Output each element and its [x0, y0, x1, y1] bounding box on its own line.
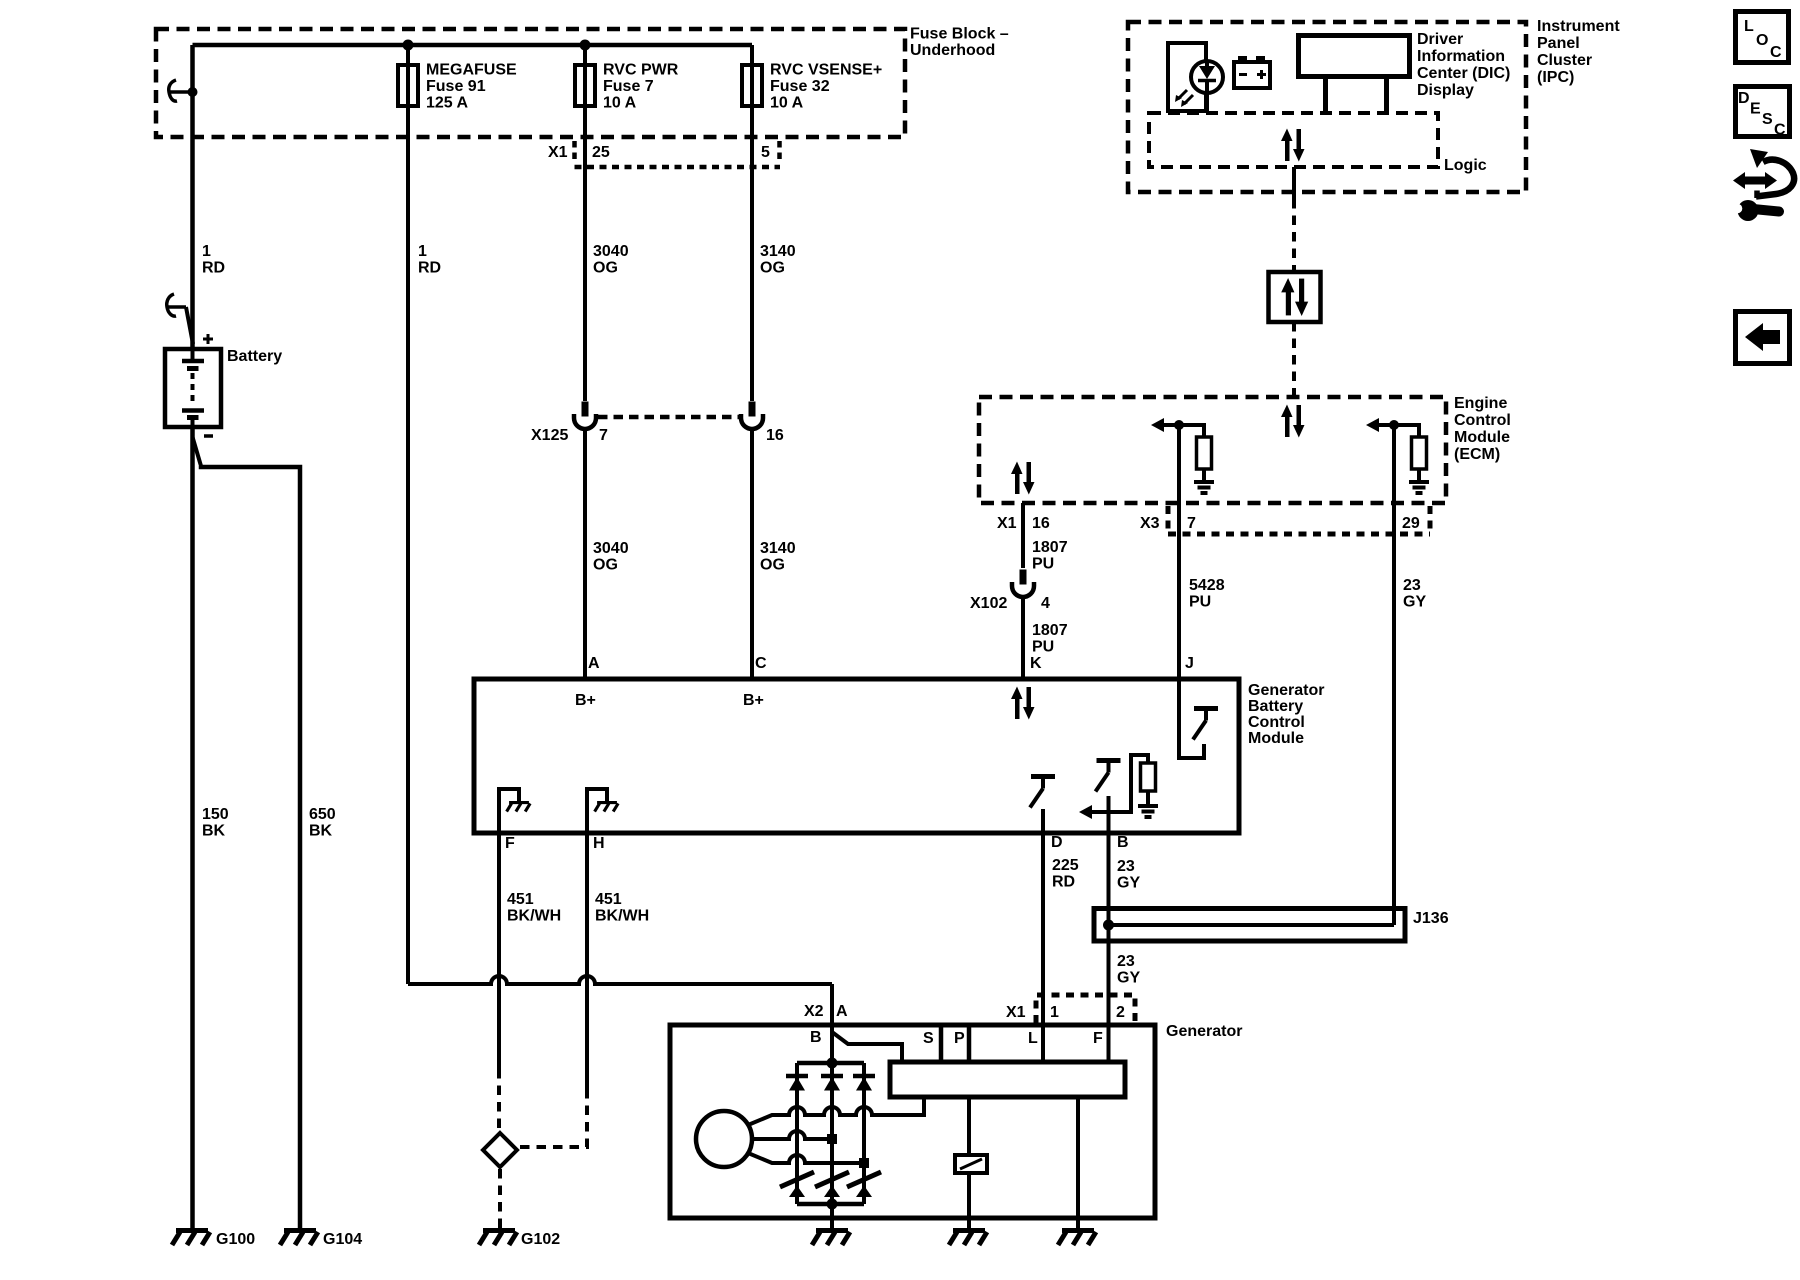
- IPC box: [1128, 22, 1526, 192]
- wire 3140 OG upper: [752, 45, 796, 401]
- bus wire B+ in fuse block: [193, 43, 753, 48]
- svg-text:RVC PWR: RVC PWR: [603, 62, 679, 79]
- battery plus sign: [203, 334, 213, 344]
- svg-text:23: 23: [1403, 577, 1421, 594]
- svg-text:451: 451: [507, 891, 534, 908]
- svg-text:3140: 3140: [760, 540, 796, 557]
- fuse RVC VSENSE+ Fuse 32: [742, 62, 882, 112]
- svg-text:25: 25: [592, 144, 610, 161]
- svg-text:4: 4: [1041, 595, 1050, 612]
- svg-text:Driver: Driver: [1417, 31, 1463, 48]
- battery negative post clamp: [193, 437, 202, 466]
- fuse MEGAFUSE Fuse 91: [398, 62, 517, 112]
- connector X125 dashed link: [598, 415, 739, 420]
- serial data arrows in ECM: [1281, 405, 1305, 438]
- svg-text:F: F: [1093, 1030, 1103, 1047]
- regulator box: [890, 1062, 1125, 1097]
- svg-text:G100: G100: [216, 1231, 255, 1248]
- svg-text:GY: GY: [1117, 875, 1140, 892]
- svg-text:Information: Information: [1417, 48, 1505, 65]
- svg-text:J: J: [1185, 655, 1194, 672]
- ECM pull-up resistor R2 branch pin 29: [1366, 418, 1429, 493]
- svg-text:Display: Display: [1417, 82, 1474, 99]
- wire 5428 PU to GBCM J: [1179, 425, 1225, 679]
- generator box: [670, 1025, 1155, 1218]
- svg-text:RVC VSENSE+: RVC VSENSE+: [770, 62, 882, 79]
- wire 451 BK/WH from pin H: [520, 833, 649, 1147]
- noise suppressor wire: [967, 1097, 971, 1155]
- wire 1807 PU lower to GBCM K: [1023, 597, 1068, 679]
- wire 3040 OG upper: [585, 45, 629, 401]
- ground G102: [479, 1231, 560, 1249]
- GBCM ground at pin H: [587, 789, 618, 833]
- svg-text:Fuse 91: Fuse 91: [426, 78, 486, 95]
- wrench icon: [1733, 200, 1779, 221]
- S P terminal dividers: [941, 1027, 969, 1062]
- svg-text:Control: Control: [1454, 412, 1511, 429]
- svg-text:G102: G102: [521, 1231, 560, 1248]
- svg-text:Module: Module: [1248, 730, 1304, 747]
- junction phase 3: [859, 1158, 869, 1168]
- zener diode D5: [815, 1172, 849, 1197]
- svg-text:7: 7: [1187, 515, 1196, 532]
- DESC icon: [1736, 87, 1790, 139]
- connector X125 pin 7: [531, 402, 608, 445]
- connector X125 pin 16: [741, 402, 784, 445]
- svg-text:PU: PU: [1032, 639, 1054, 656]
- zener diode D6: [847, 1172, 881, 1197]
- generator ground 1: [812, 1231, 850, 1246]
- battery telltale icon: [1234, 56, 1270, 88]
- rectifier branch 3: [862, 1063, 866, 1204]
- svg-text:Generator: Generator: [1166, 1023, 1242, 1040]
- svg-text:X1: X1: [548, 144, 568, 161]
- svg-text:Underhood: Underhood: [910, 42, 995, 59]
- svg-text:16: 16: [766, 427, 784, 444]
- suppressor ground wire: [967, 1173, 971, 1230]
- battery B1: [165, 348, 282, 427]
- svg-text:23: 23: [1117, 858, 1135, 875]
- splice S1 diamond: [483, 1133, 517, 1167]
- svg-text:Battery: Battery: [227, 348, 282, 365]
- dashed wire to G102: [498, 1169, 502, 1230]
- svg-text:OG: OG: [760, 260, 785, 277]
- svg-text:S: S: [923, 1030, 934, 1047]
- svg-text:X3: X3: [1140, 515, 1160, 532]
- svg-text:Generator: Generator: [1248, 682, 1324, 699]
- svg-text:L: L: [1744, 18, 1754, 35]
- GBCM switch at pin D: [1030, 777, 1055, 834]
- svg-text:Module: Module: [1454, 429, 1510, 446]
- junction dot at battery feed: [188, 87, 198, 97]
- svg-text:X125: X125: [531, 427, 568, 444]
- stator winding rotor: [696, 1111, 752, 1167]
- svg-text:16: 16: [1032, 515, 1050, 532]
- wire 1 RD from megafuse to generator X2-A: [408, 45, 832, 1063]
- rectifier branch 1: [795, 1063, 799, 1204]
- svg-text:X1: X1: [997, 515, 1017, 532]
- connector X3 of ECM: [1140, 506, 1430, 534]
- svg-text:X1: X1: [1006, 1004, 1026, 1021]
- svg-text:RD: RD: [418, 260, 441, 277]
- svg-text:650: 650: [309, 806, 336, 823]
- GBCM box: [474, 679, 1239, 833]
- battery positive post clamp: [167, 294, 193, 344]
- splice pack J136: [1094, 909, 1449, 942]
- svg-text:H: H: [593, 835, 605, 852]
- fuse RVC PWR Fuse 7: [575, 62, 679, 112]
- svg-text:2: 2: [1116, 1004, 1125, 1021]
- svg-text:Fuse Block –: Fuse Block –: [910, 26, 1009, 43]
- svg-text:D: D: [1738, 90, 1750, 107]
- svg-text:10 A: 10 A: [770, 95, 804, 112]
- svg-text:B+: B+: [575, 692, 596, 709]
- ECM box: [979, 397, 1446, 503]
- svg-text:G104: G104: [323, 1231, 362, 1248]
- svg-text:Engine: Engine: [1454, 395, 1507, 412]
- schematic navigation icon: [1733, 149, 1794, 198]
- battery minus sign: [204, 434, 213, 438]
- svg-text:BK: BK: [309, 823, 333, 840]
- svg-text:E: E: [1750, 101, 1761, 118]
- svg-text:P: P: [954, 1030, 965, 1047]
- svg-text:Center (DIC): Center (DIC): [1417, 65, 1510, 82]
- fuse block label: [910, 26, 1009, 60]
- GBCM ground at pin F: [499, 789, 530, 833]
- wire 3040 OG lower to GBCM A: [585, 429, 629, 679]
- GBCM switch at pin B: [1096, 761, 1121, 834]
- svg-text:1: 1: [418, 243, 427, 260]
- wire 3140 OG lower to GBCM C: [752, 429, 796, 679]
- svg-text:225: 225: [1052, 857, 1079, 874]
- DIC display U2: [1299, 36, 1410, 113]
- generator ground 2: [949, 1231, 987, 1246]
- svg-text:23: 23: [1117, 953, 1135, 970]
- svg-text:MEGAFUSE: MEGAFUSE: [426, 62, 517, 79]
- ECM pin X1-16 labels: [997, 515, 1050, 532]
- svg-text:(ECM): (ECM): [1454, 446, 1500, 463]
- svg-text:451: 451: [595, 891, 622, 908]
- DIC display label: [1417, 31, 1510, 99]
- connector X102 pin 4: [970, 570, 1050, 613]
- svg-text:OG: OG: [593, 260, 618, 277]
- GBCM current sense arrow at B: [1079, 755, 1148, 819]
- GBCM resistor to ground: [1138, 763, 1158, 817]
- ground G100: [172, 1231, 255, 1249]
- svg-text:C: C: [755, 655, 767, 672]
- battery feed eyelet terminal: [169, 80, 191, 101]
- wire 1807 PU upper: [1023, 503, 1068, 573]
- svg-text:PU: PU: [1032, 556, 1054, 573]
- svg-text:A: A: [836, 1003, 848, 1020]
- svg-text:BK/WH: BK/WH: [507, 908, 561, 925]
- fuse block box: [156, 29, 905, 137]
- back arrow icon: [1736, 312, 1790, 364]
- stator phase 3 wire: [748, 1153, 864, 1163]
- ECM arrows at pin 16: [1011, 462, 1035, 495]
- svg-text:K: K: [1030, 655, 1042, 672]
- diode D1: [786, 1076, 808, 1091]
- junction bottom rail: [827, 1199, 838, 1210]
- connector X2 pin A labels: [804, 1003, 848, 1020]
- connector X1 of generator: [1006, 995, 1135, 1023]
- svg-text:S: S: [1762, 111, 1773, 128]
- wire 23 GY from ECM pin 29 to J136: [1394, 425, 1426, 925]
- GBCM serial arrows at pin K: [1011, 687, 1035, 720]
- rectifier bridge top rail: [797, 1061, 864, 1066]
- svg-text:10 A: 10 A: [603, 95, 637, 112]
- svg-text:F: F: [505, 835, 515, 852]
- svg-text:O: O: [1756, 32, 1768, 49]
- zener diode D4: [780, 1172, 814, 1197]
- wire battery positive 1 RD: [193, 45, 226, 349]
- svg-text:Panel: Panel: [1537, 35, 1580, 52]
- wire 23 GY from pin B: [1109, 833, 1141, 1062]
- svg-text:7: 7: [599, 427, 608, 444]
- GBCM pin C: [743, 655, 767, 709]
- svg-text:29: 29: [1402, 515, 1420, 532]
- generator terminal labels: [810, 1029, 1103, 1047]
- svg-text:(IPC): (IPC): [1537, 69, 1574, 86]
- svg-text:GY: GY: [1117, 970, 1140, 987]
- svg-text:3140: 3140: [760, 243, 796, 260]
- svg-text:125 A: 125 A: [426, 95, 469, 112]
- svg-text:150: 150: [202, 806, 229, 823]
- generator B ground wire: [830, 1204, 834, 1230]
- serial data dashed wire upper: [1292, 199, 1296, 272]
- IPC label: [1537, 18, 1620, 86]
- svg-text:Fuse 32: Fuse 32: [770, 78, 830, 95]
- B terminal link to regulator: [832, 1032, 902, 1062]
- wire 650 BK to G104: [201, 466, 336, 1230]
- rectifier bottom rail: [797, 1202, 864, 1207]
- GBCM switch at pin J: [1179, 679, 1218, 758]
- junction at megafuse: [403, 40, 414, 51]
- svg-text:D: D: [1051, 834, 1063, 851]
- IPC logic box: [1149, 113, 1487, 174]
- svg-text:B+: B+: [743, 692, 764, 709]
- stator phase 1 wire: [748, 1097, 924, 1125]
- svg-text:B: B: [810, 1029, 822, 1046]
- rectifier branch 2: [830, 1063, 834, 1204]
- svg-text:X2: X2: [804, 1003, 824, 1020]
- svg-text:Control: Control: [1248, 714, 1305, 731]
- svg-text:Instrument: Instrument: [1537, 18, 1620, 35]
- wire 225 RD from pin D: [1043, 833, 1079, 1062]
- junction at rvc pwr fuse: [580, 40, 591, 51]
- ECM pull-up resistor R1 branch pin 7: [1151, 418, 1214, 493]
- serial data arrows in logic: [1281, 129, 1305, 162]
- svg-text:PU: PU: [1189, 594, 1211, 611]
- svg-text:L: L: [1028, 1030, 1038, 1047]
- stator phase 2 wire: [752, 1131, 832, 1139]
- svg-text:1: 1: [1050, 1004, 1059, 1021]
- diode D3: [853, 1076, 875, 1091]
- ground G104: [280, 1231, 362, 1249]
- wire logic to IPC edge: [1292, 167, 1296, 199]
- svg-text:5: 5: [761, 144, 770, 161]
- svg-text:RD: RD: [202, 260, 225, 277]
- wire 451 BK/WH from pin F: [499, 833, 561, 1131]
- svg-text:GY: GY: [1403, 594, 1426, 611]
- ECM label: [1454, 395, 1511, 463]
- serial data gateway box: [1269, 272, 1321, 322]
- svg-text:1: 1: [202, 243, 211, 260]
- serial data dashed wire lower: [1292, 322, 1296, 397]
- connector X1 of fuse block: [548, 141, 780, 167]
- GBCM label: [1248, 682, 1324, 747]
- svg-text:BK/WH: BK/WH: [595, 908, 649, 925]
- junction phase 2: [827, 1134, 837, 1144]
- wire 150 BK to G100: [193, 427, 229, 1230]
- svg-text:RD: RD: [1052, 874, 1075, 891]
- svg-text:Battery: Battery: [1248, 698, 1303, 715]
- svg-text:1807: 1807: [1032, 622, 1068, 639]
- svg-text:X102: X102: [970, 595, 1007, 612]
- diode D2: [821, 1076, 843, 1091]
- svg-text:OG: OG: [760, 557, 785, 574]
- svg-text:3040: 3040: [593, 243, 629, 260]
- svg-text:OG: OG: [593, 557, 618, 574]
- GBCM pin A: [575, 655, 600, 709]
- svg-text:B: B: [1117, 834, 1129, 851]
- generator ground 3: [1058, 1231, 1096, 1246]
- svg-text:Logic: Logic: [1444, 157, 1487, 174]
- svg-text:Fuse 7: Fuse 7: [603, 78, 654, 95]
- svg-text:C: C: [1774, 122, 1786, 139]
- svg-text:C: C: [1770, 44, 1782, 61]
- svg-text:5428: 5428: [1189, 577, 1225, 594]
- svg-text:Cluster: Cluster: [1537, 52, 1592, 69]
- svg-text:BK: BK: [202, 823, 226, 840]
- svg-text:J136: J136: [1413, 910, 1449, 927]
- noise suppressor C1: [955, 1155, 987, 1173]
- svg-text:A: A: [588, 655, 600, 672]
- junction at B top rail: [827, 1058, 838, 1069]
- LOC icon: [1736, 12, 1789, 63]
- svg-text:3040: 3040: [593, 540, 629, 557]
- regulator ground wire: [1076, 1097, 1080, 1230]
- svg-text:1807: 1807: [1032, 539, 1068, 556]
- charge indicator telltale: [1168, 43, 1223, 111]
